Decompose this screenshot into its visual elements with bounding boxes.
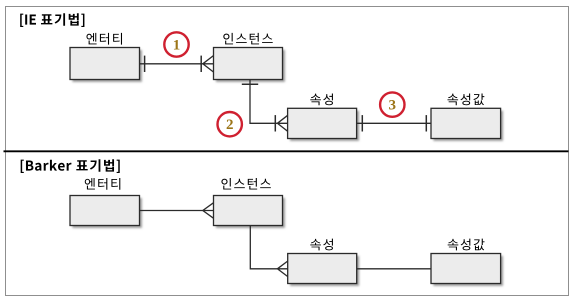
label 인스턴스 (top) bbox=[223, 33, 272, 44]
title [IE 표기법] bbox=[20, 13, 84, 27]
entity box (Barker) bbox=[70, 196, 142, 228]
one bar below instance bbox=[242, 83, 258, 85]
marker circle 3 bbox=[380, 92, 404, 116]
label 엔터티 (bottom) bbox=[85, 178, 121, 190]
label 속성 (top) bbox=[310, 93, 333, 105]
one bar at attribute bbox=[361, 115, 363, 131]
title [Barker 표기법] bbox=[21, 159, 120, 173]
label 엔터티 (top) bbox=[86, 33, 122, 45]
wire attribute-attrvalue bbox=[357, 122, 431, 124]
attribute box (IE) bbox=[288, 108, 359, 141]
label 속성 (bottom) bbox=[310, 239, 333, 251]
entity box (IE) bbox=[70, 48, 142, 82]
attribute-value box (Barker) bbox=[431, 254, 503, 286]
label 속성값 (bottom) bbox=[448, 239, 485, 251]
svg-text:1: 1 bbox=[173, 38, 181, 54]
section divider bbox=[4, 150, 569, 152]
label 속성값 (top) bbox=[447, 93, 484, 105]
instance box (IE) bbox=[214, 48, 285, 82]
crow foot at instance (Barker) bbox=[203, 203, 214, 219]
label 인스턴스 (bottom) bbox=[221, 178, 270, 189]
crow foot at instance (IE) bbox=[201, 56, 213, 73]
marker circle 2 bbox=[218, 112, 242, 136]
attribute box (Barker) bbox=[288, 254, 359, 286]
wire instance-attribute vertical bbox=[250, 80, 277, 124]
wire entity-instance (Barker) bbox=[140, 210, 203, 212]
svg-text:3: 3 bbox=[389, 98, 397, 114]
crow foot at attribute (Barker) bbox=[277, 261, 287, 277]
wire attribute-attrvalue (Barker) bbox=[357, 268, 431, 270]
wire entity-instance bbox=[140, 63, 204, 65]
one bar at attribute-value bbox=[425, 115, 427, 131]
one bar at entity bbox=[144, 56, 146, 72]
instance box (Barker) bbox=[214, 196, 285, 228]
crow foot at attribute (IE) bbox=[275, 115, 287, 131]
marker circle 1 bbox=[164, 32, 188, 56]
attribute-value box (IE) bbox=[431, 108, 503, 141]
svg-text:2: 2 bbox=[226, 117, 234, 133]
wire instance-attribute (Barker) bbox=[250, 226, 277, 269]
